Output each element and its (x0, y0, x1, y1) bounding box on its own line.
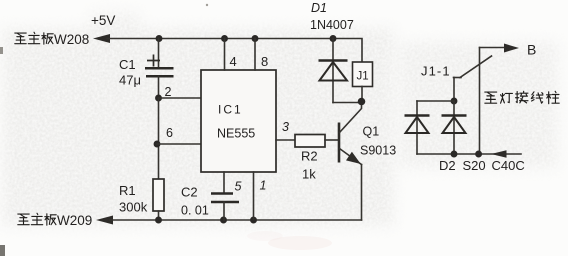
diode D2b (442, 101, 467, 154)
svg-text:0. 01: 0. 01 (181, 204, 209, 218)
node lamp-B line (475, 151, 482, 158)
svg-text:300k: 300k (119, 200, 148, 215)
wire pin3 (276, 139, 295, 141)
pin label 6 (166, 126, 173, 140)
wire C1 to node2 (158, 76, 160, 98)
pin label 3 (282, 120, 289, 134)
arrow on lamp rail (491, 150, 507, 158)
svg-text:2: 2 (165, 85, 172, 99)
wire D1 to J1 node (333, 102, 362, 104)
svg-text:C2: C2 (181, 185, 198, 200)
svg-text:IC1: IC1 (218, 103, 243, 117)
wire C2 to rail (223, 202, 225, 220)
node switch-diode top (451, 98, 458, 105)
svg-text:47μ: 47μ (119, 73, 141, 88)
svg-text:W209: W209 (57, 213, 92, 228)
node rail-C2 (220, 217, 227, 224)
resistor R1 (153, 179, 164, 211)
svg-text:D1: D1 (311, 1, 327, 15)
node D1-J1-collector (358, 98, 366, 106)
label D2 (439, 158, 456, 173)
wire bottom rail (110, 219, 362, 221)
arrow to W208 (93, 34, 110, 43)
svg-text:1: 1 (260, 179, 267, 193)
svg-text:+5V: +5V (91, 13, 115, 28)
label 1N4007 (310, 18, 354, 32)
wire diode top rail (417, 100, 454, 102)
label C2 (181, 185, 198, 200)
svg-text:R2: R2 (301, 149, 318, 164)
label S9013 (360, 144, 396, 158)
svg-text:S9013: S9013 (360, 144, 396, 158)
node 2 (155, 95, 162, 102)
wire B drop to lamp rail (479, 48, 481, 155)
op IC1 NE555 box (201, 70, 276, 172)
wire pin5 (223, 172, 225, 193)
pin label 2 (165, 85, 172, 99)
label Q1 (363, 125, 380, 139)
wire rail to C1 (158, 39, 160, 69)
label 300k (119, 200, 148, 215)
node rail-pin4 (221, 35, 228, 42)
label C40C (492, 158, 525, 173)
capacitor C1 (145, 55, 174, 77)
label D1 (311, 1, 327, 15)
arrow B (504, 44, 519, 53)
wire +5V rail (107, 38, 333, 40)
diode D2a (405, 101, 430, 154)
node lamp-D2b (451, 151, 458, 158)
wire node2 to R1 (158, 98, 160, 179)
svg-text:J1: J1 (357, 71, 369, 83)
wire rail to J1 drop (333, 39, 362, 63)
arrow to W209 (96, 216, 113, 225)
label 0.01 (181, 204, 209, 218)
svg-text:8: 8 (261, 54, 268, 69)
label 至灯接线柱 (485, 91, 559, 103)
svg-text:R1: R1 (119, 183, 136, 198)
label 至主板W208 (15, 32, 90, 47)
pin label 1 (260, 179, 267, 193)
label J1-1 (421, 64, 451, 79)
wire lamp bottom rail (417, 153, 521, 155)
transistor Q1 (339, 103, 362, 165)
label C1 (119, 57, 136, 72)
node rail-pin8 (252, 35, 259, 42)
diode D1 (319, 39, 348, 103)
label 47u (119, 73, 141, 88)
svg-text:C40C: C40C (492, 158, 525, 173)
label 至主板W209 (18, 213, 93, 228)
pin label 5 (235, 180, 242, 194)
node rail-D1 (330, 35, 337, 42)
svg-text:C1: C1 (119, 57, 136, 72)
svg-text:S20: S20 (463, 158, 486, 173)
svg-text:J1-1: J1-1 (421, 64, 451, 79)
svg-text:6: 6 (166, 126, 173, 140)
svg-text:4: 4 (230, 54, 237, 69)
pin label 8 (261, 54, 268, 69)
svg-text:1N4007: 1N4007 (310, 18, 354, 32)
label +5V (91, 13, 115, 28)
svg-text:1k: 1k (302, 167, 316, 182)
svg-text:D2: D2 (439, 158, 456, 173)
node 6 (154, 141, 161, 148)
wire pin2 (159, 97, 202, 99)
node rail-R1 (155, 217, 162, 224)
resistor R2 (295, 135, 325, 148)
wire pin4 (224, 39, 226, 71)
wire pin1 (253, 172, 255, 219)
wire pin8 (254, 39, 256, 71)
wire R2 to base (325, 139, 338, 141)
node rail-C1 (156, 35, 163, 42)
label IC1 (218, 103, 243, 117)
wire emitter to rail (361, 165, 363, 221)
scan noise marks (0, 4, 332, 256)
wire to B (480, 47, 507, 49)
switch J1-1 blade (460, 56, 492, 78)
svg-text:3: 3 (282, 120, 289, 134)
svg-text:5: 5 (235, 180, 242, 194)
wire J1 bottom (361, 87, 363, 103)
svg-text:W208: W208 (54, 32, 89, 47)
node rail-pin1 (250, 217, 257, 224)
relay J1 (353, 62, 373, 87)
label 1k (302, 167, 316, 182)
label S20 (463, 158, 486, 173)
wire R1 to bottom rail (158, 211, 160, 220)
svg-text:B: B (527, 42, 536, 58)
label R2 (301, 149, 318, 164)
svg-text:NE555: NE555 (217, 127, 255, 141)
pin label 4 (230, 54, 237, 69)
svg-text:Q1: Q1 (363, 125, 380, 139)
capacitor C2 (211, 194, 239, 203)
wire pin6 (157, 143, 201, 145)
label R1 (119, 183, 136, 198)
wire switch to diodes (453, 78, 455, 102)
label B (527, 42, 536, 58)
label NE555 (217, 127, 255, 141)
switch stub (454, 77, 462, 79)
